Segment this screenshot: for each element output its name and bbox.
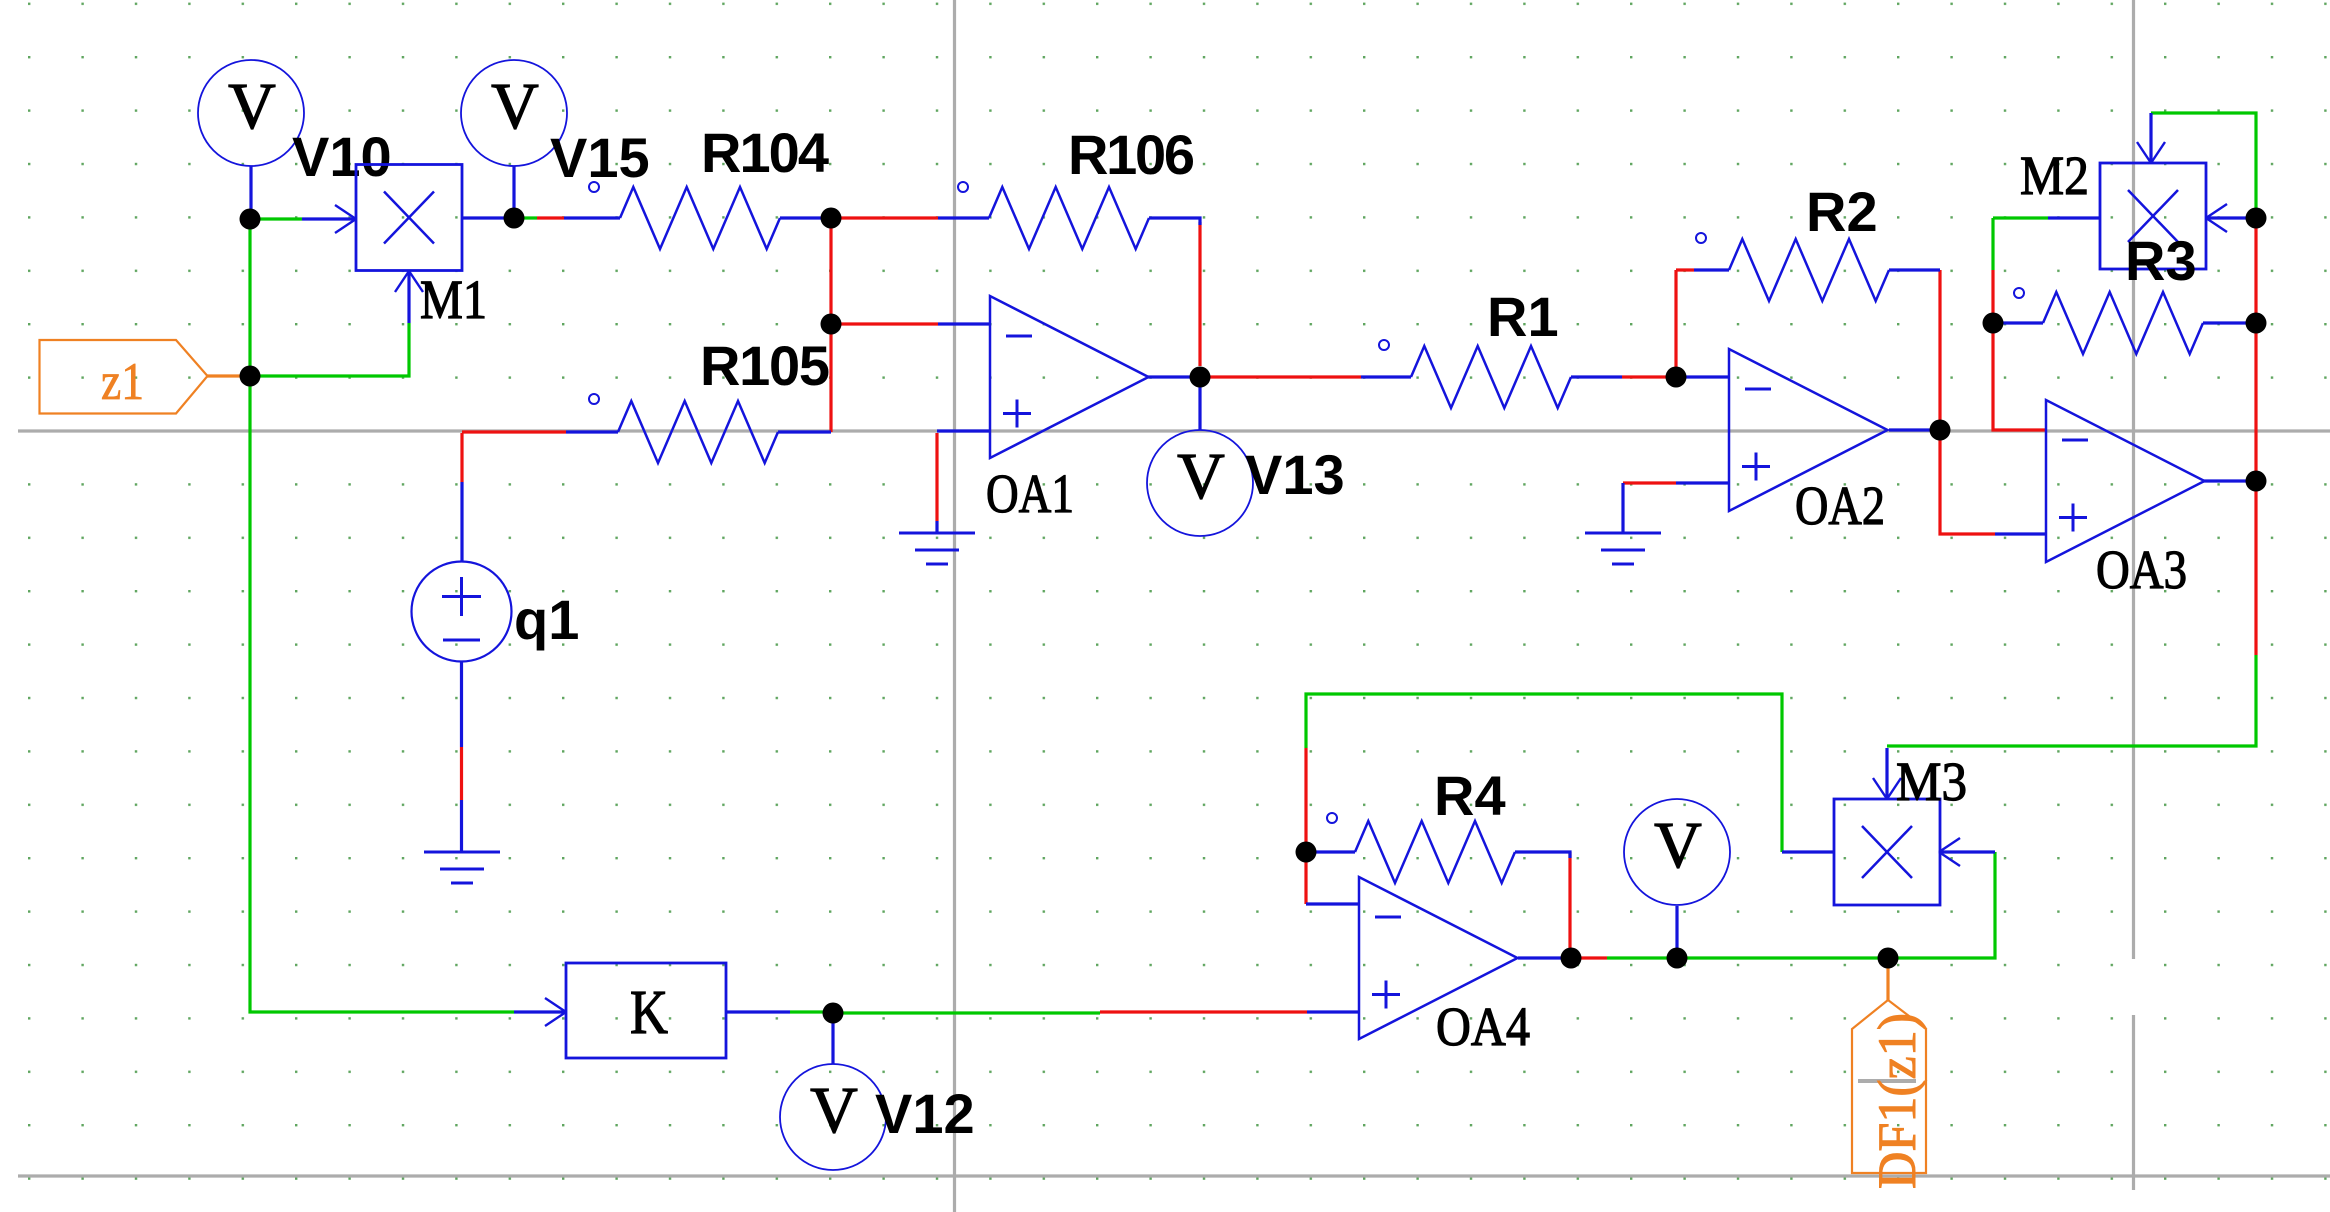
wire [1676, 481, 1729, 484]
ground [899, 532, 975, 535]
svg-text:V: V [810, 1074, 858, 1147]
op-amp OA2 [1729, 349, 1888, 511]
wire [1940, 430, 1995, 534]
node [504, 208, 525, 229]
wire [1568, 852, 1571, 958]
node [821, 208, 842, 229]
wire [1991, 218, 1994, 270]
wire [726, 1010, 790, 1013]
wire [1991, 270, 1994, 323]
flag DF1(z1) [1852, 1000, 1926, 1173]
svg-text:R1: R1 [1487, 285, 1559, 348]
wire [1674, 270, 1677, 377]
node [1667, 948, 1688, 969]
wire [249, 166, 252, 219]
source q1 [412, 562, 512, 662]
wire [829, 218, 832, 432]
resistor R1 [1361, 375, 1411, 378]
voltmeter V12 [780, 1064, 886, 1170]
svg-text:V15: V15 [550, 126, 650, 189]
voltmeter V15 [461, 60, 567, 166]
wire [1306, 694, 1782, 852]
svg-text:V10: V10 [292, 125, 392, 188]
svg-text:K: K [630, 979, 668, 1047]
wire [831, 1013, 834, 1064]
wire [937, 429, 990, 432]
node [1190, 367, 1211, 388]
node [823, 1003, 844, 1024]
node [2246, 313, 2267, 334]
wire [1306, 902, 1359, 905]
wire [460, 482, 463, 562]
wire [833, 1011, 1100, 1014]
wire [2254, 218, 2257, 481]
svg-text:R3: R3 [2125, 229, 2197, 292]
voltmeter V13 [1147, 430, 1253, 536]
wire [1198, 222, 1201, 366]
wire [1995, 532, 2046, 535]
wire [460, 747, 463, 800]
svg-text:R2: R2 [1806, 180, 1878, 243]
op-amp OA4 [1359, 877, 1518, 1039]
wire [512, 166, 515, 218]
svg-text:R105: R105 [700, 334, 830, 397]
block K1 [566, 963, 726, 1058]
resistor R104 [564, 216, 620, 219]
node [240, 209, 261, 230]
wire [1887, 655, 2256, 746]
wire [1938, 270, 1941, 430]
svg-text:OA4: OA4 [1436, 996, 1530, 1057]
wire [1675, 906, 1678, 958]
wire [1198, 377, 1201, 430]
op-amp OA3 [2046, 400, 2205, 562]
resistor R2 [1694, 268, 1729, 271]
node [1930, 420, 1951, 441]
wire [250, 376, 514, 1012]
svg-text:V13: V13 [1245, 443, 1345, 506]
node [240, 366, 261, 387]
wire [1200, 375, 1361, 378]
wire [1622, 375, 1676, 378]
wire [938, 322, 990, 325]
svg-text:V: V [1654, 809, 1702, 882]
svg-text:R4: R4 [1434, 764, 1506, 827]
wire [248, 219, 251, 376]
wire [1307, 1010, 1359, 1013]
voltmeter V10 [198, 60, 304, 166]
svg-text:R104: R104 [701, 121, 829, 184]
op-amp OA1 [990, 296, 1149, 458]
terminal [589, 394, 599, 404]
wire [2202, 479, 2256, 482]
wire [1623, 481, 1676, 484]
multiplier M3 [1834, 799, 1940, 905]
wire [1304, 748, 1307, 904]
svg-text:DF1(z1): DF1(z1) [1867, 1013, 1927, 1189]
svg-text:OA3: OA3 [2096, 539, 2187, 600]
wire [1518, 956, 1571, 959]
wire [1621, 483, 1624, 532]
wire [250, 323, 409, 376]
svg-text:q1: q1 [514, 588, 579, 651]
terminal [1696, 233, 1706, 243]
svg-text:V: V [491, 70, 539, 143]
svg-text:M3: M3 [1896, 751, 1967, 812]
node [1878, 948, 1899, 969]
multiplier M2 [2100, 163, 2206, 269]
terminal [2014, 288, 2024, 298]
wire [1571, 956, 1607, 959]
wire [250, 217, 302, 220]
node [2246, 471, 2267, 492]
wire [1100, 1010, 1307, 1013]
wire [1993, 216, 2048, 219]
svg-text:R106: R106 [1068, 123, 1195, 186]
wire [2151, 113, 2256, 218]
wire [935, 433, 938, 521]
svg-text:V: V [1177, 440, 1225, 513]
terminal [958, 182, 968, 192]
resistor R3 [1993, 321, 2043, 324]
wire [1886, 958, 1889, 1000]
resistor R106 [938, 216, 989, 219]
svg-text:M1: M1 [420, 269, 487, 330]
resistor R105 [566, 430, 618, 433]
node [1666, 367, 1687, 388]
terminal [1379, 340, 1389, 350]
terminal [589, 182, 599, 192]
wire [836, 216, 938, 219]
node [1983, 313, 2004, 334]
wire [935, 521, 938, 532]
wire [1607, 956, 1677, 959]
svg-text:OA2: OA2 [1795, 475, 1885, 536]
wire [2254, 481, 2257, 655]
wire [462, 430, 566, 433]
wire [1677, 956, 1888, 959]
wire [790, 1010, 833, 1013]
ground [1585, 532, 1661, 535]
node [2246, 208, 2267, 229]
wire [1888, 852, 1995, 958]
svg-text:z1: z1 [101, 353, 144, 411]
wire [1993, 323, 2046, 430]
resistor R4 [1306, 850, 1355, 853]
wire [515, 216, 537, 219]
wire [460, 800, 463, 851]
node [821, 314, 842, 335]
flag z1 [40, 340, 208, 414]
multiplier M1 [356, 165, 462, 271]
wire [1889, 428, 1940, 431]
svg-text:V: V [228, 70, 276, 143]
svg-text:OA1: OA1 [986, 463, 1074, 524]
wire [831, 322, 938, 325]
svg-text:V12: V12 [875, 1082, 975, 1145]
node [1296, 842, 1317, 863]
wire [460, 433, 463, 482]
wire [1148, 375, 1200, 378]
ground [424, 851, 500, 854]
svg-text:M2: M2 [2020, 145, 2089, 206]
node [1561, 948, 1582, 969]
wire [537, 216, 564, 219]
terminal [1327, 813, 1337, 823]
wire [1676, 268, 1694, 271]
voltmeter V [1624, 799, 1730, 905]
wire [207, 374, 250, 377]
wire [1676, 375, 1729, 378]
